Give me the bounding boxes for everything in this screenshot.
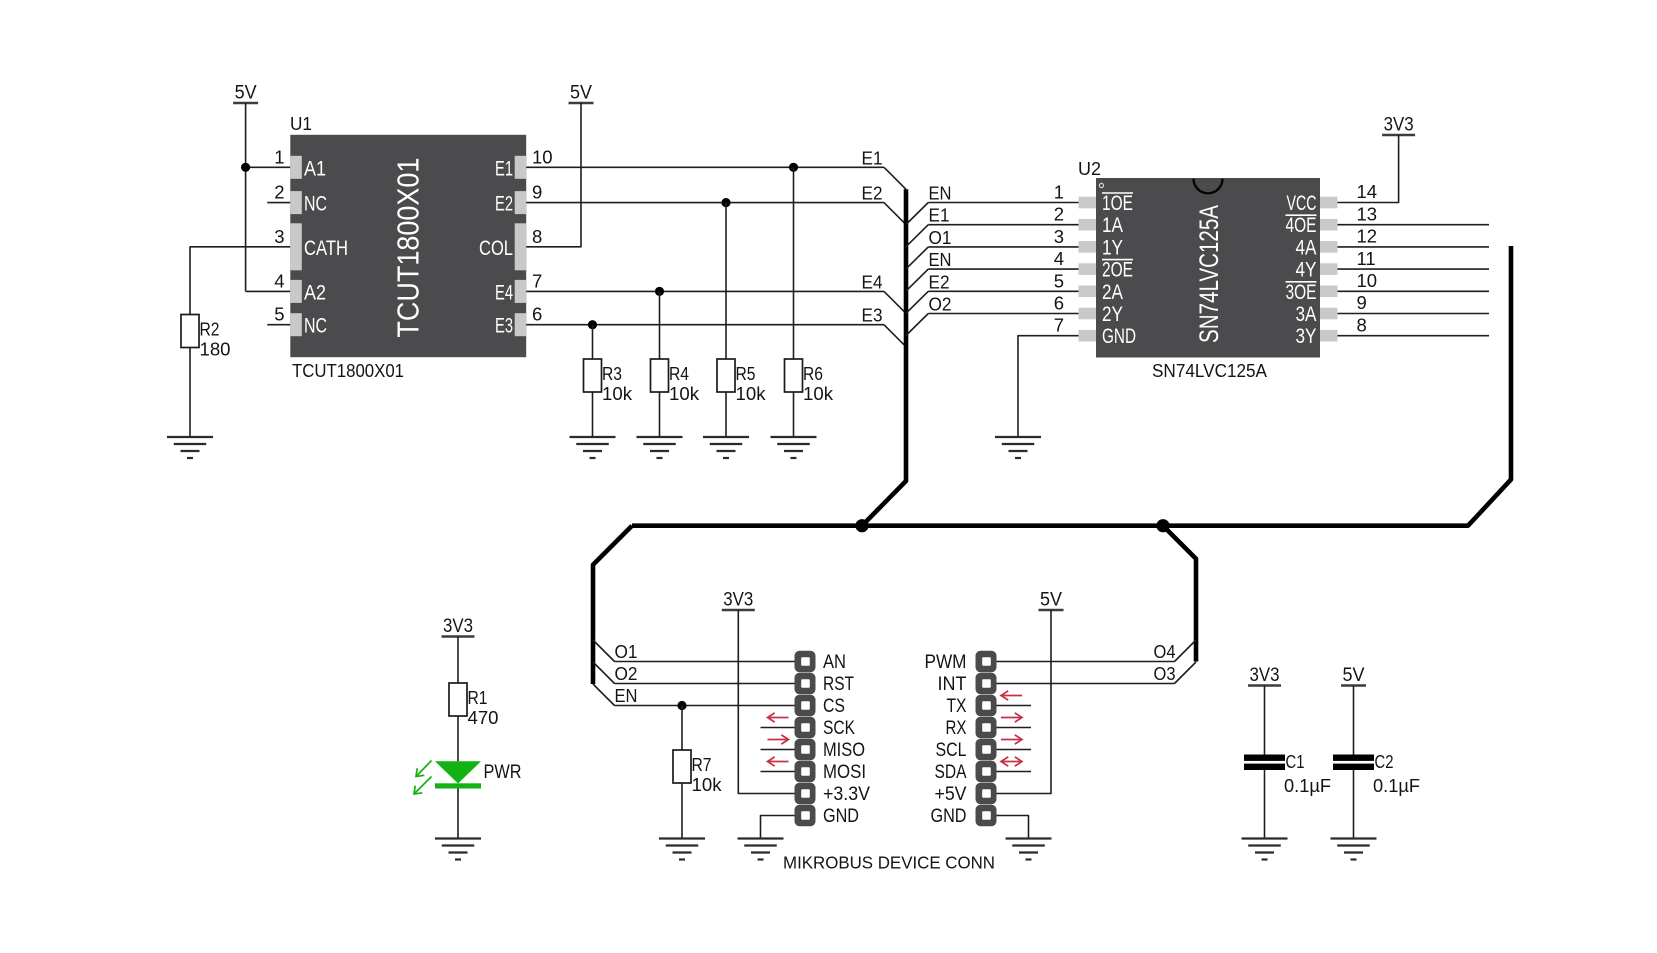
U2 pin label 1A [1102, 214, 1123, 237]
U1 left pads [290, 156, 302, 336]
arrow SDA (bidir) [1001, 757, 1022, 766]
U2 pin number 12 [1357, 226, 1378, 247]
svg-text:R4: R4 [669, 363, 689, 384]
U2 pin label 4Y [1296, 259, 1317, 282]
bus entry [906, 269, 928, 291]
header pin label TX [947, 695, 967, 717]
svg-text:TCUT1800X01: TCUT1800X01 [292, 360, 404, 381]
svg-text:VCC: VCC [1287, 192, 1317, 215]
U1 pin number 5 [274, 304, 284, 325]
LED PWR anode triangle [435, 761, 481, 783]
U1 pin label COL [479, 237, 513, 260]
wire R6 to ground [793, 392, 795, 437]
svg-text:10k: 10k [803, 383, 834, 404]
label R3 [602, 363, 622, 384]
wire to U2 pin 4 [928, 268, 1078, 270]
svg-text:A2: A2 [304, 281, 326, 304]
wire O4 to PWM [997, 661, 1175, 663]
U1 pin label E2 [495, 193, 513, 216]
U2 pin number 11 [1357, 248, 1376, 269]
svg-text:R3: R3 [602, 363, 622, 384]
svg-text:7: 7 [1054, 315, 1064, 336]
label R1 [468, 687, 488, 708]
LED emission arrow 2 [414, 777, 432, 795]
net label E1 [862, 147, 883, 168]
power symbol 3V3 (3V3 LED) [442, 616, 475, 637]
svg-text:10k: 10k [692, 774, 723, 795]
label C2 [1375, 751, 1394, 772]
U2 pin label 1OE [1102, 192, 1133, 215]
wire A2 pin4 [246, 290, 291, 292]
svg-text:O3: O3 [1154, 663, 1176, 684]
U1 pin number 6 [532, 304, 542, 325]
U2 pin number 10 [1357, 270, 1378, 291]
svg-text:8: 8 [1357, 314, 1367, 335]
svg-text:R1: R1 [468, 687, 488, 708]
wire to U2 pin 5 [928, 290, 1078, 292]
header pin label RX [946, 717, 967, 739]
svg-text:O1: O1 [929, 227, 952, 248]
resistor R5 [717, 359, 735, 392]
svg-text:R7: R7 [692, 754, 712, 775]
capacitor C1 top plate [1244, 755, 1285, 761]
wire C2 to ground [1353, 770, 1355, 839]
U2 notch [1194, 179, 1223, 194]
power symbol 3V3 (3V3 U2 VCC) [1382, 115, 1415, 136]
value 0.1uF (C1) [1284, 775, 1331, 796]
arrow SCK (in) [768, 713, 789, 722]
svg-text:R5: R5 [736, 363, 756, 384]
bus entry [906, 203, 928, 225]
U2 pin label 4OE [1286, 214, 1317, 237]
net label EN [615, 685, 638, 706]
svg-text:COL: COL [479, 237, 513, 260]
IC U1 body (TCUT1800X01) [290, 135, 526, 357]
svg-text:11: 11 [1357, 248, 1376, 269]
wire U2 pin 13 [1338, 224, 1490, 226]
bus entry O1 [593, 640, 615, 662]
svg-text:R6: R6 [803, 363, 823, 384]
wire E3 to R3 [592, 325, 594, 359]
svg-text:2A: 2A [1102, 281, 1123, 304]
ground (C2) [1331, 839, 1377, 860]
svg-text:INT: INT [938, 673, 967, 695]
svg-text:C2: C2 [1375, 751, 1394, 772]
svg-text:O2: O2 [929, 294, 952, 315]
svg-text:SDA: SDA [935, 761, 967, 783]
svg-text:9: 9 [1357, 292, 1367, 313]
svg-text:SCK: SCK [823, 717, 855, 739]
value 10k (R7) [692, 774, 723, 795]
svg-text:180: 180 [200, 339, 231, 360]
label R4 [669, 363, 689, 384]
U1 pin 2 stub (NC) [267, 202, 290, 204]
bus entry [906, 291, 928, 313]
bus entry O3 [1175, 662, 1197, 684]
svg-text:13: 13 [1357, 203, 1378, 224]
svg-text:TX: TX [947, 695, 967, 717]
U1 pin label CATH [304, 237, 348, 260]
bus junction right [1156, 519, 1169, 532]
svg-text:3V3: 3V3 [1384, 115, 1414, 136]
svg-text:3: 3 [1054, 226, 1064, 247]
svg-text:10: 10 [532, 146, 553, 167]
svg-text:SCL: SCL [936, 739, 967, 761]
svg-text:2Y: 2Y [1102, 303, 1123, 326]
wire A1 pin1 [246, 166, 291, 168]
U1 pin label E3 [495, 315, 513, 338]
U2 right pads [1320, 197, 1338, 342]
U1 pin number 4 [274, 270, 284, 291]
wire C1 to ground [1264, 770, 1266, 839]
bus left drop [593, 526, 632, 684]
U2 pin label 2A [1102, 281, 1123, 304]
U1 pin label NC [304, 315, 327, 338]
resistor R7 [673, 750, 691, 783]
svg-text:10k: 10k [736, 383, 767, 404]
U1 pin label A1 [304, 157, 326, 180]
LED emission arrow 1 [416, 761, 432, 777]
svg-text:E3: E3 [862, 305, 883, 326]
wire to U2 pin 3 [928, 246, 1078, 248]
U2 pin label 3A [1296, 303, 1317, 326]
capacitor C1 bottom plate [1244, 764, 1285, 770]
svg-text:AN: AN [823, 651, 846, 673]
U1 pin number 2 [274, 182, 284, 203]
wire LED to ground [457, 789, 459, 839]
wire O3 to INT [997, 683, 1175, 685]
wire left header GND [761, 816, 795, 839]
svg-text:E1: E1 [929, 205, 950, 226]
ground (R2) [167, 437, 213, 458]
bus entry O4 [1175, 640, 1197, 662]
net label O4 [1154, 641, 1176, 662]
header pin label SCK [823, 717, 855, 739]
net label O1 [929, 227, 952, 248]
svg-text:3V3: 3V3 [443, 616, 473, 637]
header pin label INT [938, 673, 967, 695]
wire R2 to ground [189, 348, 191, 438]
bus entry EN [593, 684, 615, 706]
svg-text:EN: EN [929, 249, 952, 270]
bus entry [906, 225, 928, 247]
U2 pin number 4 [1054, 248, 1064, 269]
wire EN to CS [615, 705, 795, 707]
svg-text:SN74LVC125A: SN74LVC125A [1194, 205, 1224, 343]
wire R1 to LED [457, 716, 459, 761]
net label O2 [615, 663, 638, 684]
svg-text:C1: C1 [1286, 751, 1305, 772]
svg-text:E2: E2 [495, 193, 513, 216]
svg-text:5: 5 [1054, 270, 1064, 291]
U2 pin number 1 [1054, 182, 1064, 203]
net label O2 [929, 294, 952, 315]
svg-text:10k: 10k [669, 383, 700, 404]
label R5 [736, 363, 756, 384]
value 180 (R2) [200, 339, 231, 360]
capacitor C2 bottom plate [1333, 764, 1374, 770]
resistor R4 [651, 359, 669, 392]
label SN74LVC125A (below U2) [1152, 360, 1268, 381]
junction E1/R6 [789, 163, 798, 172]
svg-text:2: 2 [1054, 204, 1064, 225]
bus entry [906, 314, 928, 336]
ground (LED) [435, 839, 481, 860]
label R2 [200, 319, 220, 340]
net label EN [929, 183, 952, 204]
resistor R2 [181, 315, 199, 348]
svg-text:6: 6 [1054, 293, 1064, 314]
svg-text:NC: NC [304, 315, 327, 338]
wire U2 pin 11 [1338, 268, 1490, 270]
svg-text:E1: E1 [862, 147, 883, 168]
stub 3 [761, 727, 795, 729]
U2 pin label 3Y [1296, 325, 1317, 348]
svg-text:MIKROBUS DEVICE CONN: MIKROBUS DEVICE CONN [783, 853, 995, 873]
label C1 [1286, 751, 1305, 772]
ground (U2 GND) [995, 437, 1041, 458]
label U1 [290, 113, 312, 134]
svg-text:O4: O4 [1154, 641, 1176, 662]
label U2 [1078, 158, 1101, 179]
U2 pin1 indicator [1099, 183, 1103, 187]
svg-text:TCUT1800X01: TCUT1800X01 [391, 158, 426, 338]
wire U2 pin 8 [1338, 335, 1490, 337]
ground (R4) [637, 437, 683, 458]
wire E4 to R4 [659, 291, 661, 359]
stub r2 [997, 705, 1032, 707]
svg-text:O1: O1 [615, 641, 638, 662]
header pin label RST [823, 673, 854, 695]
arrow TX (in) [1001, 691, 1022, 700]
header pin label SDA [935, 761, 967, 783]
svg-text:10: 10 [1357, 270, 1378, 291]
value 10k (R4) [669, 383, 700, 404]
U1 pin number 7 [532, 270, 542, 291]
svg-text:E4: E4 [495, 281, 513, 304]
ground (R6) [771, 437, 817, 458]
U2 pin number 14 [1357, 181, 1378, 202]
junction E4/R4 [655, 287, 664, 296]
ground (R3) [570, 437, 616, 458]
arrow SCL (out) [1001, 735, 1022, 744]
svg-text:8: 8 [532, 226, 542, 247]
header pin label CS [823, 695, 845, 717]
wire EN to R7 [681, 706, 683, 751]
svg-text:E1: E1 [495, 157, 513, 180]
net label E4 [862, 271, 883, 292]
svg-text:+5V: +5V [935, 783, 967, 805]
wire R5 to ground [725, 392, 727, 437]
svg-text:4Y: 4Y [1296, 259, 1317, 282]
stub r5 [997, 771, 1032, 773]
net label EN [929, 249, 952, 270]
U1 pin label NC [304, 193, 327, 216]
svg-text:10k: 10k [602, 383, 633, 404]
resistor R1 [449, 683, 467, 716]
header pin label PWM [925, 651, 967, 673]
net label E1 [929, 205, 950, 226]
wire E3 (pin6) [526, 324, 884, 326]
wire E2 to R5 [725, 203, 727, 359]
U1 pin label E1 [495, 157, 513, 180]
power symbol 5V (5V COL pullup) [569, 83, 594, 104]
value 10k (R3) [602, 383, 633, 404]
bus junction left [855, 519, 868, 532]
svg-text:NC: NC [304, 193, 327, 216]
net label E2 [862, 183, 883, 204]
U2 pin label VCC [1287, 192, 1317, 215]
U1 pin label A2 [304, 281, 326, 304]
power symbol 5V (5V rail U1 anodes) [233, 83, 258, 104]
U2 vertical part name [1194, 205, 1224, 343]
wire 5V to A1/A2 rail [245, 103, 247, 291]
ground (R7) [659, 839, 705, 860]
wire 5V to C2 [1353, 686, 1355, 755]
wire U2 pin 10 [1338, 290, 1490, 292]
stub r3 [997, 727, 1032, 729]
net label O1 [615, 641, 638, 662]
wire R4 to ground [659, 392, 661, 437]
wire E2 (pin9) [526, 202, 884, 204]
wire COL to 5V [526, 103, 581, 247]
svg-text:PWM: PWM [925, 651, 967, 673]
label TCUT1800X01 (below U1) [292, 360, 404, 381]
svg-text:14: 14 [1357, 181, 1378, 202]
U2 pin label 4A [1296, 236, 1317, 259]
mikroBUS left header pads [795, 651, 816, 826]
bus right drop [1163, 526, 1196, 662]
mikroBUS right header pads [976, 651, 997, 826]
bus horizontal [632, 246, 1511, 526]
junction 5V/A1 [241, 163, 250, 172]
wire O2 to RST [615, 683, 795, 685]
svg-text:EN: EN [615, 685, 638, 706]
U1 pin number 9 [532, 182, 542, 203]
header pin label SCL [936, 739, 967, 761]
bus entry [906, 247, 928, 269]
svg-text:R2: R2 [200, 319, 220, 340]
svg-text:CATH: CATH [304, 237, 348, 260]
bus entry O2 [593, 662, 615, 684]
wire 5V to +5V [997, 610, 1052, 794]
svg-text:3: 3 [274, 226, 284, 247]
U2 pin number 6 [1054, 293, 1064, 314]
svg-text:9: 9 [532, 182, 542, 203]
arrow MOSI (in) [768, 757, 789, 766]
svg-text:3V3: 3V3 [723, 590, 753, 611]
value 0.1uF (C2) [1373, 775, 1420, 796]
U2 pin number 5 [1054, 270, 1064, 291]
header pin label AN [823, 651, 846, 673]
svg-text:1A: 1A [1102, 214, 1123, 237]
svg-text:3V3: 3V3 [1250, 665, 1280, 686]
wire O1 to AN [615, 661, 795, 663]
U2 pin label 2OE [1102, 259, 1133, 282]
arrow RX (out) [1001, 713, 1022, 722]
svg-text:EN: EN [929, 183, 952, 204]
U2 pin label 1Y [1102, 236, 1123, 259]
U2 pin number 2 [1054, 204, 1064, 225]
svg-text:3A: 3A [1296, 303, 1317, 326]
svg-text:4: 4 [1054, 248, 1064, 269]
ground (right header GND) [1006, 839, 1052, 860]
power symbol 5V (5V header) [1039, 590, 1064, 611]
svg-text:1OE: 1OE [1102, 192, 1133, 215]
wire 3V3 to +3.3V [738, 610, 794, 794]
ground (C1) [1242, 839, 1288, 860]
U2 pin number 13 [1357, 203, 1378, 224]
U1 pin number 10 [532, 146, 553, 167]
wire to U2 pin 1 [928, 202, 1078, 204]
header pin label +3.3V [823, 783, 870, 805]
label PWR [484, 761, 522, 783]
svg-text:4A: 4A [1296, 236, 1317, 259]
ground (left header GND) [738, 839, 784, 860]
junction EN/R7 [677, 701, 686, 710]
power symbol 5V (5V C2) [1341, 665, 1366, 686]
svg-text:O2: O2 [615, 663, 638, 684]
svg-text:SN74LVC125A: SN74LVC125A [1152, 360, 1268, 381]
header pin label GND [931, 805, 967, 827]
wire E4 (pin7) [526, 290, 884, 292]
bus entry [884, 325, 906, 347]
svg-text:2: 2 [274, 182, 284, 203]
svg-text:GND: GND [931, 805, 967, 827]
U1 pin number 8 [532, 226, 542, 247]
svg-text:E3: E3 [495, 315, 513, 338]
svg-text:5V: 5V [235, 83, 257, 104]
stub 4 [761, 749, 795, 751]
wire R3 to ground [592, 392, 594, 437]
svg-text:12: 12 [1357, 226, 1378, 247]
svg-text:5V: 5V [1040, 590, 1062, 611]
svg-text:E2: E2 [929, 271, 950, 292]
svg-text:4: 4 [274, 270, 284, 291]
value 10k (R6) [803, 383, 834, 404]
svg-text:CS: CS [823, 695, 845, 717]
svg-text:0.1µF: 0.1µF [1284, 775, 1331, 796]
svg-text:RST: RST [823, 673, 854, 695]
IC U2 body (SN74LVC125A) [1096, 178, 1320, 358]
svg-text:E2: E2 [862, 183, 883, 204]
junction E3/R3 [588, 320, 597, 329]
wire E1 to R6 [793, 167, 795, 359]
stub r4 [997, 749, 1032, 751]
wire U2 GND (pin7) [1018, 336, 1079, 437]
svg-text:4OE: 4OE [1286, 214, 1317, 237]
U1 right pads [515, 156, 527, 336]
U1 pin number 1 [274, 146, 284, 167]
capacitor C2 top plate [1333, 755, 1374, 761]
U2 pin number 9 [1357, 292, 1367, 313]
label R7 [692, 754, 712, 775]
bus entry [884, 167, 906, 189]
wire to U2 pin 2 [928, 224, 1078, 226]
svg-text:GND: GND [823, 805, 859, 827]
label R6 [803, 363, 823, 384]
svg-text:2OE: 2OE [1102, 259, 1133, 282]
svg-text:RX: RX [946, 717, 967, 739]
svg-text:3OE: 3OE [1286, 281, 1317, 304]
header pin label GND [823, 805, 859, 827]
wire VCC to 3V3 [1338, 135, 1399, 203]
svg-text:5: 5 [274, 304, 284, 325]
arrow MISO (out) [768, 735, 789, 744]
svg-text:A1: A1 [304, 157, 326, 180]
net label E2 [929, 271, 950, 292]
bus vertical (U1-U2) [862, 189, 906, 525]
